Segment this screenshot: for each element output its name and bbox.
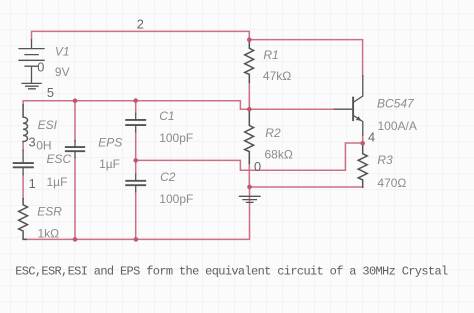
svg-text:C1: C1 [159, 109, 174, 123]
svg-text:470Ω: 470Ω [377, 176, 406, 190]
junction dot C2 bottom [134, 237, 139, 242]
wire EPS branch upper [74, 101, 76, 141]
svg-text:0: 0 [254, 159, 261, 174]
junction dot R1 top [247, 37, 252, 42]
junction dot node5/base [247, 107, 252, 112]
transistor emitter arrow [356, 116, 362, 121]
svg-text:100A/A: 100A/A [378, 119, 417, 133]
junction dot EPS top [73, 98, 78, 103]
wire node2: battery top to R1 top to collector [32, 31, 363, 75]
wire EPS branch lower [74, 158, 76, 240]
svg-text:1kΩ: 1kΩ [38, 226, 60, 240]
capacitor C2 [126, 174, 145, 191]
svg-text:ESI: ESI [38, 118, 58, 132]
svg-text:9V: 9V [55, 65, 70, 79]
wire C2 top [135, 160, 137, 174]
capacitor ESC [14, 150, 33, 175]
junction dot ground node [247, 185, 252, 190]
wire emitter to node4 dot to R3 top [362, 135, 364, 146]
wire ground node to R3 bottom [250, 186, 363, 188]
wire node0 bottom rail [26, 187, 250, 240]
wire R2 bottom to ground node [248, 163, 250, 187]
capacitor EPS [66, 141, 84, 158]
svg-text:ESC,ESR,ESI and EPS form the e: ESC,ESR,ESI and EPS form the equivalent … [15, 264, 448, 278]
svg-text:68kΩ: 68kΩ [265, 147, 293, 161]
wire node1: ESC to ESR [22, 175, 24, 199]
svg-text:V1: V1 [55, 45, 70, 59]
svg-text:4: 4 [368, 129, 375, 144]
svg-text:R1: R1 [263, 48, 278, 62]
svg-text:5: 5 [47, 85, 54, 100]
wire C2 bottom [135, 192, 137, 240]
wire C1 bottom to mid node [135, 132, 137, 161]
wire R1 bottom to node5 junction [248, 82, 250, 109]
svg-text:R2: R2 [265, 126, 281, 140]
svg-text:ESR: ESR [37, 204, 62, 218]
svg-text:3: 3 [29, 134, 36, 149]
svg-text:2: 2 [137, 17, 144, 32]
junction dot C1 top [133, 98, 138, 103]
ground (battery) [22, 83, 41, 88]
resistor R1 [245, 40, 254, 82]
resistor ESR [19, 199, 28, 240]
inductor ESI [23, 105, 27, 142]
ground (node 0, mid) [239, 196, 260, 202]
svg-text:1µF: 1µF [47, 175, 68, 189]
svg-text:ESC: ESC [47, 152, 72, 166]
svg-text:1: 1 [29, 176, 36, 191]
svg-text:EPS: EPS [98, 136, 122, 150]
svg-text:47kΩ: 47kΩ [263, 69, 291, 83]
svg-text:0: 0 [37, 59, 44, 74]
wire C1 top [135, 100, 137, 113]
svg-text:1µF: 1µF [99, 157, 120, 171]
svg-text:R3: R3 [377, 153, 393, 167]
transistor Q1 BC547 [335, 76, 363, 136]
junction dot EPS bottom [73, 237, 78, 242]
battery V1 [19, 40, 44, 83]
svg-text:100pF: 100pF [159, 131, 193, 145]
capacitor C1 [126, 113, 145, 131]
resistor R3 [358, 146, 367, 187]
junction dot emitter node4 [360, 141, 365, 146]
junction dot C1/C2 mid [133, 158, 138, 163]
svg-text:C2: C2 [160, 170, 176, 184]
resistor R2 [245, 112, 254, 164]
svg-text:BC547: BC547 [377, 96, 415, 110]
wire node4: C1/C2 mid to emitter [136, 143, 363, 170]
wire node5: left branch top rail with step to R1/R2 junction and base [23, 101, 334, 110]
wire node3: ESI to ESC [22, 141, 24, 150]
svg-text:100pF: 100pF [159, 192, 193, 206]
svg-text:0H: 0H [36, 139, 51, 153]
